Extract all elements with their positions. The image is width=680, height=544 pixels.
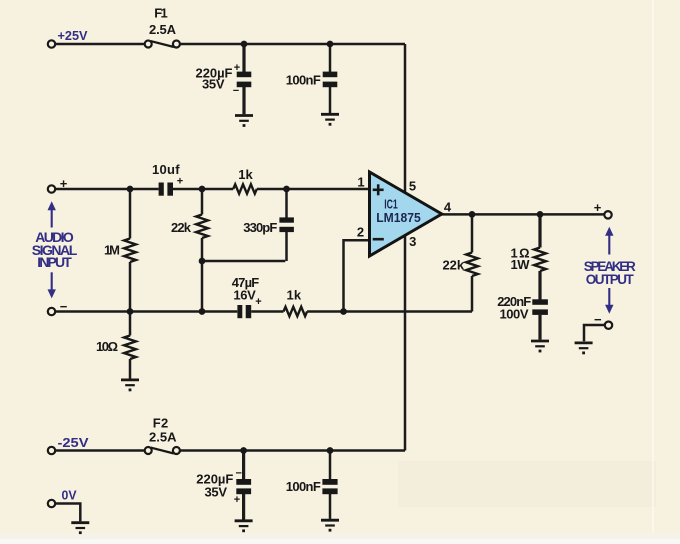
- resistor R4 1k (feedback lower): [284, 307, 308, 316]
- wire 0V to ground: [55, 504, 80, 522]
- ground 220nF: [531, 341, 549, 352]
- svg-text:LM1875: LM1875: [376, 210, 421, 225]
- wire 220uF top lead: [242, 44, 245, 72]
- capacitor C5 47uF 16V plates: [237, 305, 251, 318]
- wire 220uF bottom lead to ground: [242, 87, 245, 114]
- label SPEAKER OUTPUT: [584, 259, 636, 287]
- wire C2 to node B: [173, 188, 233, 191]
- wire 10ohm bottom lead to ground: [129, 359, 132, 379]
- junction node C 330pF: [283, 186, 290, 193]
- resistor R6 22k (feedback): [466, 253, 478, 277]
- ground C7: [235, 521, 253, 532]
- wire 330pF to node D: [202, 260, 285, 263]
- svg-text:1W: 1W: [511, 257, 531, 272]
- wire input- line: [55, 310, 237, 313]
- junction node B input: [127, 186, 134, 193]
- terminal speaker +: [604, 211, 611, 218]
- wire output line: [441, 213, 604, 216]
- wire pin 3 riser to -25V rail: [404, 233, 407, 451]
- junction node input- 22k: [199, 308, 206, 315]
- bottom page-edge strip: [0, 533, 680, 544]
- terminal input +: [48, 185, 55, 192]
- capacitor C3 100nF top plates: [323, 72, 338, 88]
- capacitor C7 220uF 35V bottom plates: [236, 479, 251, 494]
- svg-text:10Ω: 10Ω: [96, 339, 118, 354]
- wire 330pF top lead: [285, 189, 288, 218]
- junction node -25V rail C8: [327, 447, 334, 454]
- capacitor C4 330pF plates: [279, 217, 294, 232]
- svg-text:2.5A: 2.5A: [149, 430, 177, 445]
- terminal speaker -: [605, 322, 612, 329]
- ground C3: [321, 114, 339, 125]
- wire -25V rail right segment: [180, 449, 405, 452]
- wire 330pF bottom lead: [285, 232, 288, 261]
- svg-text:-25V: -25V: [58, 436, 90, 450]
- wire 1ohm top lead: [538, 214, 541, 247]
- terminal 0V: [48, 500, 55, 507]
- svg-text:+: +: [594, 200, 602, 215]
- fuse F1: [145, 41, 180, 48]
- svg-text:−: −: [60, 299, 68, 314]
- svg-text:0V: 0V: [62, 489, 78, 503]
- junction node output 1ohm: [537, 211, 544, 218]
- svg-text:22k: 22k: [443, 258, 465, 273]
- fuse F2: [145, 447, 180, 454]
- svg-text:4: 4: [444, 200, 452, 215]
- wire pin 5 riser to +25V rail: [404, 44, 407, 192]
- junction node input- R1: [127, 308, 134, 315]
- svg-text:22k: 22k: [171, 220, 192, 235]
- wire 100nF bottom cap top lead: [329, 451, 332, 480]
- wire -25V rail left segment: [55, 449, 145, 452]
- svg-text:2.5A: 2.5A: [149, 22, 177, 37]
- resistor R5 10ohm: [124, 336, 136, 360]
- wire 1ohm to 220nF: [538, 271, 541, 300]
- svg-text:1k: 1k: [287, 288, 302, 303]
- svg-text:F1: F1: [154, 6, 168, 21]
- capacitor C2 10uf plates: [159, 183, 173, 196]
- capacitor C6 220nF 100V plates: [532, 299, 548, 315]
- ground 0V: [71, 523, 89, 534]
- svg-text:+: +: [234, 62, 240, 74]
- wire node E to feedback 22k: [344, 310, 473, 313]
- wire 100nF top lead: [329, 44, 332, 72]
- label AUDIO SIGNAL INPUT: [32, 229, 78, 270]
- terminal -25V: [48, 447, 55, 454]
- junction node top rail C1: [241, 41, 248, 48]
- wire R2 to node C: [257, 188, 370, 191]
- wire 220nF bottom lead to ground: [538, 315, 541, 340]
- svg-text:100nF: 100nF: [286, 73, 321, 88]
- svg-text:−: −: [233, 85, 239, 97]
- junction node output 22k: [469, 211, 476, 218]
- svg-text:OUTPUT: OUTPUT: [586, 272, 635, 287]
- svg-text:+: +: [60, 176, 68, 191]
- resistor R2 1k (top): [233, 184, 257, 193]
- wire 22k feedback top lead to output: [471, 214, 474, 252]
- ground C8: [321, 520, 339, 531]
- wire 10ohm top lead: [129, 312, 132, 336]
- junction node 22k top: [199, 186, 206, 193]
- wire +25V rail left segment: [55, 43, 145, 46]
- junction node E: [340, 308, 347, 315]
- svg-text:F2: F2: [153, 416, 169, 431]
- wire 220uF bottom cap top lead: [242, 451, 245, 480]
- svg-text:2: 2: [357, 225, 364, 240]
- wire R1 bottom lead: [129, 262, 132, 312]
- svg-text:5: 5: [409, 179, 416, 194]
- terminal input -: [48, 308, 55, 315]
- wire R1 top lead: [129, 189, 132, 239]
- right page-edge line: [652, 0, 654, 533]
- wire 22k feedback bottom lead: [471, 276, 474, 312]
- resistor R1 1M: [124, 239, 136, 263]
- op-amp U1 LM1875: [370, 172, 442, 256]
- svg-text:1k: 1k: [238, 167, 253, 182]
- svg-text:+: +: [234, 494, 240, 506]
- arrow input down: [48, 272, 56, 298]
- wire 220uF bottom cap lead to ground: [242, 494, 245, 520]
- svg-text:−: −: [235, 468, 241, 480]
- wire R3 bottom lead to node D: [201, 238, 204, 312]
- faint watermark patch: [398, 461, 656, 507]
- ground 10ohm: [121, 380, 139, 391]
- svg-text:100V: 100V: [500, 307, 529, 322]
- wire 100nF bottom cap lead to ground: [329, 494, 332, 519]
- svg-text:+25V: +25V: [58, 29, 89, 43]
- wire R4 to node E: [307, 310, 343, 313]
- svg-text:INPUT: INPUT: [37, 254, 72, 270]
- svg-text:16V: 16V: [233, 288, 256, 303]
- svg-text:100nF: 100nF: [286, 479, 321, 494]
- arrow speaker down: [605, 288, 613, 314]
- junction node D: [199, 258, 206, 265]
- ground speaker-: [575, 343, 593, 354]
- svg-text:35V: 35V: [202, 77, 225, 92]
- resistor R7 1ohm 1W: [534, 248, 546, 272]
- svg-text:+: +: [177, 176, 183, 188]
- svg-text:330pF: 330pF: [243, 220, 277, 235]
- wire node E riser to pin 2: [344, 240, 370, 311]
- wire +25V rail right segment: [180, 43, 405, 46]
- svg-text:+: +: [255, 296, 261, 308]
- resistor R3 22k (input): [196, 215, 208, 239]
- wire C5 to R4: [251, 310, 283, 313]
- arrow input up: [48, 201, 56, 227]
- wire speaker- to ground: [584, 325, 604, 341]
- wire 100nF bottom lead to ground: [329, 87, 332, 113]
- svg-text:−: −: [594, 312, 602, 327]
- junction node -25V rail C7: [240, 447, 247, 454]
- svg-text:1M: 1M: [104, 243, 120, 258]
- arrow speaker up: [605, 227, 613, 255]
- terminal +25V: [48, 40, 55, 47]
- svg-text:3: 3: [409, 234, 416, 249]
- capacitor C1 220uF 35V top plates: [237, 72, 252, 88]
- ground C1: [235, 116, 253, 127]
- wire R3 top lead: [201, 189, 204, 215]
- wire input+ to C2: [55, 188, 158, 191]
- svg-text:35V: 35V: [205, 485, 228, 500]
- junction node top rail C3: [327, 41, 334, 48]
- svg-text:1: 1: [357, 175, 364, 190]
- capacitor C8 100nF bottom plates: [322, 479, 337, 494]
